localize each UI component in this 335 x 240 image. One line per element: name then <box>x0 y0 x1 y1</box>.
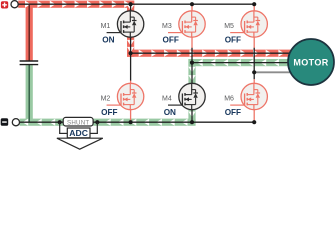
svg-text:M4: M4 <box>162 95 172 102</box>
node circle: positive terminal <box>11 1 18 8</box>
wire: M3 source to phase B node <box>191 48 193 63</box>
wire: M4 source to ground rail <box>191 109 193 123</box>
battery negative terminal (-) <box>1 118 9 126</box>
op-amp/ADC block <box>57 128 103 149</box>
flow arrows: phase A <box>127 40 284 57</box>
junction: phase B node <box>190 61 194 65</box>
junction: rail end / M5 drain <box>252 2 256 6</box>
wire: M2 drain lead (off) <box>130 81 132 85</box>
wires: shunt sense to ADC <box>59 122 98 133</box>
capacitor C1 (DC link) <box>20 61 39 65</box>
wire: phase A to motor <box>131 52 291 54</box>
current band: positive rail (red, to M1) <box>18 1 134 11</box>
junction: shunt left <box>58 120 62 124</box>
junction: rail / M1 drain <box>129 2 133 6</box>
svg-text:OFF: OFF <box>225 108 241 117</box>
wire: M6 source lead (off) <box>253 109 255 123</box>
wire: phase C to motor (unused, gray) <box>254 71 292 73</box>
svg-text:M3: M3 <box>162 23 172 30</box>
junction: shunt right <box>95 120 99 124</box>
flow arrows: phase B return <box>188 59 291 117</box>
flow arrows: positive rail <box>25 1 134 11</box>
wire: M1 source to phase A node <box>130 36 132 53</box>
svg-text:OFF: OFF <box>163 35 179 44</box>
wire: M2 source lead (off) <box>130 109 132 123</box>
current band: capacitor branch from positive rail (red) <box>26 4 33 60</box>
shunt resistor <box>63 117 93 126</box>
svg-text:OFF: OFF <box>225 35 241 44</box>
battery positive terminal (+) <box>1 1 8 8</box>
wire: M5 drain lead (off) <box>253 4 255 11</box>
transistor M4 <box>168 83 205 110</box>
svg-text:M5: M5 <box>224 23 234 30</box>
node circle: negative terminal <box>12 119 19 126</box>
wire: M5 source lead (off) <box>253 36 255 48</box>
current band: ground rail through shunt (green) <box>20 119 196 126</box>
current band: capacitor branch to ground rail (green) <box>26 65 33 122</box>
svg-text:M6: M6 <box>224 95 234 102</box>
wire: M5 source to phase C node <box>253 48 255 73</box>
junction: M4 source / ground rail <box>190 120 194 124</box>
wire: M6 drain lead (off) <box>253 79 255 84</box>
wire: capacitor branch upper (dark red) <box>28 4 30 61</box>
transistor M2 <box>107 83 144 110</box>
svg-text:SHUNT: SHUNT <box>67 119 89 126</box>
junction: rail end / M6 source <box>252 120 256 124</box>
wire: M3 source lead (off) <box>191 36 193 48</box>
transistor M6 <box>230 83 267 110</box>
flow arrows: ground rail <box>23 119 188 126</box>
wire: positive rail <box>18 3 254 5</box>
wire: M1 drain lead <box>130 4 132 11</box>
wire: capacitor branch lower (dark green) <box>28 65 30 122</box>
transistor M3 <box>168 11 205 38</box>
transistor M5 <box>230 11 267 38</box>
svg-text:MOTOR: MOTOR <box>293 57 328 67</box>
svg-text:M2: M2 <box>101 95 111 102</box>
transistor M1 <box>107 11 144 38</box>
junction: phase C node <box>252 70 256 74</box>
wire: phase A node to M2 drain <box>130 53 132 81</box>
wire: phase B node to M4 drain <box>191 63 193 85</box>
wire: M3 drain lead (off) <box>191 4 193 11</box>
wire: phase B to motor <box>192 62 289 64</box>
svg-text:ADC: ADC <box>69 128 88 138</box>
current band: phase A from M1 to motor (red) <box>127 36 291 56</box>
svg-text:ON: ON <box>102 35 114 44</box>
wire: phase C node down <box>253 72 255 79</box>
junction: phase A node <box>129 51 133 55</box>
junction: M2 source / ground rail <box>129 120 133 124</box>
svg-text:M1: M1 <box>101 23 111 30</box>
junction: rail / M3 drain <box>190 2 194 6</box>
svg-text:ON: ON <box>164 108 176 117</box>
svg-text:OFF: OFF <box>101 108 117 117</box>
current band: phase B motor to M4 to ground rail (green) <box>188 59 288 122</box>
wire: ground rail <box>20 121 255 123</box>
motor <box>288 39 334 85</box>
